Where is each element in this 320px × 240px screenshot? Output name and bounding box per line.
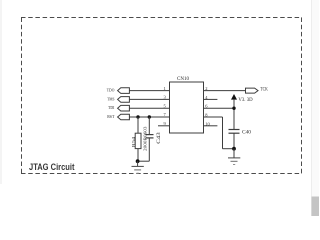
svg-text:C40: C40 xyxy=(242,129,251,135)
svg-text:TCK: TCK xyxy=(260,87,267,93)
svg-text:JTAG Circuit: JTAG Circuit xyxy=(29,162,75,173)
svg-text:CN10: CN10 xyxy=(177,77,189,82)
svg-text:RST: RST xyxy=(107,114,114,119)
svg-text:TMS: TMS xyxy=(107,96,115,101)
svg-text:10: 10 xyxy=(205,121,210,126)
svg-text:2000R0603: 2000R0603 xyxy=(142,127,147,152)
svg-text:TDO: TDO xyxy=(107,88,115,93)
svg-text:V3. 3D: V3. 3D xyxy=(238,97,252,103)
svg-text:TDI: TDI xyxy=(108,105,115,110)
svg-text:C43: C43 xyxy=(157,132,162,144)
svg-text:2: 2 xyxy=(205,86,207,91)
svg-text:R54: R54 xyxy=(131,136,136,148)
svg-text:1: 1 xyxy=(164,86,166,91)
